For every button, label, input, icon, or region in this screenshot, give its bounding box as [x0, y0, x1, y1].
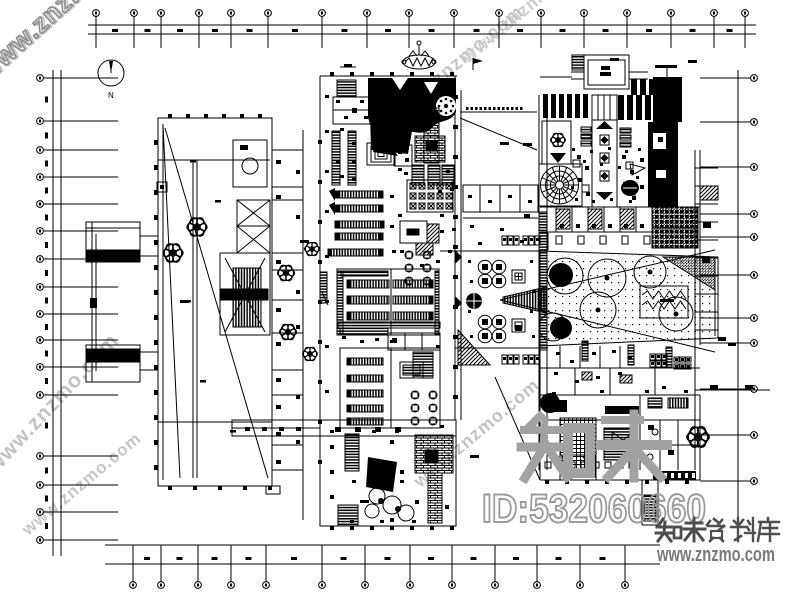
extra tables right dining [571, 147, 641, 203]
SE tiled floor darker [562, 455, 595, 477]
SE black grid bar [653, 471, 696, 480]
brand char LIAO [731, 518, 755, 541]
watermark logo ZHI character [521, 416, 590, 478]
middle strip room dividers [272, 150, 303, 470]
entrance stair [572, 55, 584, 70]
brick walk strip [428, 473, 442, 523]
plant P3 [277, 265, 294, 281]
corridor wing link [232, 420, 320, 436]
extra marks SE rooms [552, 350, 688, 395]
plant P2 [163, 244, 183, 262]
svg-text:ID:532060660: ID:532060660 [482, 487, 706, 531]
room round table upper [233, 140, 267, 187]
SE 888 furniture row B [674, 357, 691, 369]
SE stair [604, 428, 632, 460]
SE right rooms [640, 420, 700, 470]
axis grid top dimension lines [88, 25, 756, 34]
garden tree T2 [588, 259, 626, 297]
plant P1 [187, 218, 207, 236]
atrium hatch triangle [458, 330, 490, 365]
seat clusters mid [405, 251, 431, 285]
dining table rows upper [328, 188, 384, 256]
garden boundary [540, 251, 718, 346]
service band [338, 322, 440, 328]
brick pillar strip [424, 108, 439, 163]
room striped table [400, 362, 423, 378]
axis grid bottom dimension lines [105, 545, 660, 564]
watermark diagonal top-right faint [457, 0, 591, 68]
left hall diagonals [165, 128, 268, 478]
SE building outline [540, 345, 700, 480]
plant P4 [279, 324, 296, 340]
watermark diagonal bottom-left [18, 429, 145, 540]
central upper mid marks [398, 168, 456, 267]
atrium label line [460, 107, 537, 112]
stair S [338, 505, 358, 526]
stair room center [400, 221, 439, 243]
atrium extra [468, 260, 535, 338]
scatter tables dining right [573, 155, 644, 200]
dim mark NE [655, 65, 677, 77]
black bar band right [618, 79, 655, 120]
axis grid left dimension lines [53, 70, 61, 556]
hall A inner dividers [390, 269, 392, 428]
garden plants S [365, 488, 414, 521]
left hall inner corridor [158, 160, 270, 478]
vertical shelf bars [332, 131, 356, 185]
entrance vestibule [592, 95, 617, 120]
SE extra room lines [540, 368, 700, 480]
middle corridor walls [272, 76, 320, 520]
black oval table [621, 180, 639, 196]
dimension text top [112, 29, 733, 32]
SE bottom column caps [545, 480, 689, 484]
upper west wing [86, 222, 140, 262]
door marks middle strip [276, 160, 300, 464]
concentric squares feature [367, 143, 395, 165]
black corner block [653, 77, 682, 122]
label marks scattered [180, 58, 697, 503]
bottom bldg interior marks [330, 440, 449, 522]
garden dark hatch corner [663, 257, 715, 290]
chandelier ornament [402, 41, 436, 69]
door swing W2 [455, 296, 462, 310]
cone symbol [630, 164, 645, 175]
axis bubbles right [700, 75, 757, 485]
round table in blob [436, 96, 456, 116]
VIP room NW [542, 121, 571, 164]
dim marks garden right [718, 337, 736, 346]
garden tree T5 [580, 292, 616, 328]
brand char ZHI [656, 519, 681, 541]
blob white notches [392, 78, 408, 90]
axis bubbles top [93, 10, 749, 48]
watermark diagonal www.znzmo.com top-left corner [0, 0, 159, 88]
dark storage cells [652, 207, 698, 248]
watermark diagonal center near ID [409, 375, 543, 492]
left escalator bar [320, 272, 328, 305]
west connecting wall [92, 234, 96, 371]
left hall ticks interior [185, 160, 236, 433]
garden blob S [366, 457, 397, 492]
watermark diagonal top-center [387, 1, 528, 124]
left hall foot [266, 486, 280, 494]
SE rooms top row [540, 346, 700, 368]
big tree S [550, 317, 572, 339]
plant P5 [305, 242, 320, 256]
dimension text left [45, 97, 48, 530]
wing link walls [140, 236, 158, 370]
extra marks atrium rooms [468, 195, 532, 245]
brick plaza [415, 435, 453, 473]
north compass [98, 60, 124, 100]
black planter circle [466, 293, 482, 309]
lower west wing [86, 345, 140, 382]
square table grid room [407, 180, 453, 212]
striped wall column [539, 95, 547, 470]
brand char MO [684, 518, 705, 541]
axis grid right dimension line [737, 70, 739, 525]
plant VIP [551, 133, 566, 147]
small rooms beside spiral [394, 145, 412, 166]
svg-text:N: N [108, 91, 114, 100]
wall column caps central [318, 95, 458, 464]
big tree N [549, 263, 573, 287]
storage darker overlay [652, 207, 698, 248]
left hall column caps [154, 114, 272, 490]
escalator hatch [416, 243, 433, 255]
water feature [640, 286, 688, 318]
left hall lower room divider [158, 421, 272, 423]
west wall black mark [90, 298, 97, 308]
round bar spiral [539, 164, 582, 206]
axis bubbles bottom [130, 545, 629, 588]
SE tiled floor [560, 418, 596, 455]
central column caps top [330, 72, 454, 76]
svg-text:www.znzmo.com: www.znzmo.com [656, 544, 775, 566]
stair NW [337, 80, 356, 97]
SE 888 furniture row A [650, 354, 667, 367]
shop cell hatch [556, 209, 634, 229]
atrium leader diagonal [460, 118, 537, 150]
SE black plant blob [540, 393, 560, 413]
axis bubbles left [37, 75, 118, 544]
SE lower stair wing [642, 480, 658, 525]
waiter station bars [581, 127, 631, 147]
ceremonial axis corridor [592, 120, 617, 207]
portico inner marks [600, 66, 611, 76]
wedge hatch [503, 287, 546, 313]
entrance portico [584, 55, 629, 89]
NW room extra marks [336, 100, 368, 181]
SE black counter A [545, 400, 567, 412]
garden ground dots [545, 255, 715, 343]
SE black counter B [605, 406, 639, 414]
atrium upper room [463, 185, 538, 212]
door swing VIP [550, 153, 566, 163]
skylight square lower [512, 319, 525, 332]
black bar band left [543, 94, 588, 118]
central building outline [320, 76, 461, 420]
garden tree T3 [634, 256, 666, 288]
garden tree T1 [547, 258, 583, 294]
entrance flank walls [540, 72, 648, 79]
bottom building column caps [330, 427, 454, 530]
brand char ZI [707, 519, 724, 541]
brick square with dark center [415, 136, 445, 162]
central extra marks2 [325, 95, 452, 523]
stair mid [413, 352, 433, 378]
left hall outline [158, 118, 272, 486]
brand char KU [758, 518, 779, 541]
wedge skylight [500, 250, 715, 352]
banquet hall A [337, 269, 439, 335]
dimension text bottom [144, 557, 606, 560]
SE room X table [612, 432, 634, 448]
SE south strip [545, 462, 635, 468]
watermark logo MO character [601, 414, 667, 478]
tree trunks hatch [582, 341, 672, 367]
level mark center [340, 64, 356, 67]
door swing W1 [455, 250, 462, 264]
garden tree T4 [659, 297, 693, 331]
left hall small box [157, 182, 167, 192]
furniture row 888 upper [502, 236, 540, 245]
big planting blob [368, 78, 456, 137]
mid rooms row [388, 333, 440, 350]
east wall rooms [695, 150, 718, 470]
atrium diagonal SE [495, 377, 540, 480]
corridor below shops [540, 232, 650, 345]
round table cluster upper [478, 260, 506, 288]
atrium mid walls [440, 214, 548, 348]
watermark diagonal left-middle [0, 329, 123, 478]
NW rooms [333, 97, 370, 124]
skylight square upper [512, 270, 525, 283]
stair SW [345, 434, 359, 471]
level flag [473, 58, 483, 70]
seat clusters hall B [411, 391, 437, 425]
striped tables row [412, 165, 454, 185]
elevator shafts [237, 200, 270, 253]
escalator core [220, 253, 270, 335]
plant P6 [303, 347, 318, 361]
plant SE big [687, 427, 709, 447]
dim leader right [695, 385, 770, 390]
SE tiled floor lower [562, 455, 595, 477]
garden tree T6 [539, 313, 567, 341]
banquet hall B [340, 348, 440, 428]
shops row [540, 207, 700, 232]
bottom-center building outline [320, 420, 456, 526]
dark service column [648, 122, 678, 207]
round table cluster lower [478, 315, 506, 343]
furniture row 888 lower [502, 355, 540, 364]
